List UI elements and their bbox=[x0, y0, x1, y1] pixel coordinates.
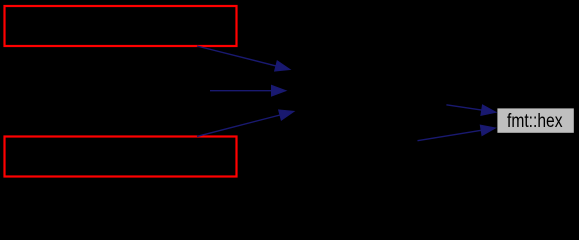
node box2: truncated caller node (red border, bottom-left) bbox=[5, 137, 237, 177]
svg-text:fmt::hex: fmt::hex bbox=[507, 110, 563, 132]
node box1: truncated caller node (red border, top-left) bbox=[5, 6, 237, 46]
node U1: fmt::hex (current node, grey filled) bbox=[497, 108, 573, 132]
wire E5: edge lower middle node -> fmt::hex (lower) bbox=[418, 125, 496, 141]
wire E4: edge middle node -> fmt::hex (upper) bbox=[446, 105, 496, 116]
wire E3: edge box2 -> middle node bbox=[197, 110, 294, 136]
wire E2: edge middle-left node -> middle node bbox=[210, 85, 286, 96]
wire E1: edge box1 -> middle node bbox=[197, 46, 290, 71]
